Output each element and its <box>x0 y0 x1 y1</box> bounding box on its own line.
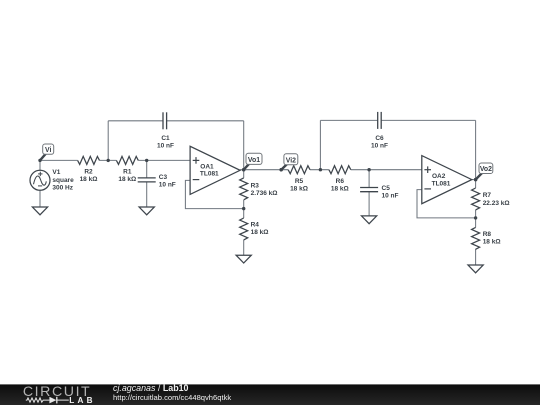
svg-text:Vo1: Vo1 <box>248 157 260 164</box>
resistor R8 <box>472 227 480 249</box>
svg-text:LAB: LAB <box>69 396 95 405</box>
capacitor C5 <box>360 188 378 192</box>
svg-text:square: square <box>52 177 74 184</box>
capacitor C3 <box>138 178 156 182</box>
R2 labels <box>80 169 98 184</box>
node junction R3/R4/feedback <box>242 207 245 210</box>
svg-text:R3: R3 <box>251 183 260 190</box>
node junction R1/C3 <box>145 159 148 162</box>
wire: OA1 output net to OA2 input <box>240 169 288 171</box>
op-amp OA2 <box>422 156 472 204</box>
wire R7 top lead <box>475 180 477 188</box>
svg-text:R2: R2 <box>84 169 93 176</box>
wire C5 bottom lead to ground <box>368 192 370 216</box>
wire feedback left vertical (stage2) <box>319 120 321 169</box>
wire: OA1 inverting feedback loop <box>185 180 243 208</box>
wire C3 bottom lead to ground <box>146 182 148 207</box>
wire OA2 output stub <box>472 179 476 181</box>
svg-text:C3: C3 <box>159 174 168 181</box>
resistor R7 <box>472 188 480 210</box>
svg-text:18 kΩ: 18 kΩ <box>483 238 501 245</box>
wire: stage1 input net <box>40 159 78 161</box>
svg-text:cj.agcanas / Lab10: cj.agcanas / Lab10 <box>113 383 189 393</box>
svg-text:R1: R1 <box>123 169 132 176</box>
ground (under C5) <box>362 216 377 224</box>
svg-text:18 kΩ: 18 kΩ <box>118 176 136 183</box>
wire feedback right vertical (stage1) <box>243 121 245 170</box>
C1 labels <box>157 135 174 150</box>
svg-text:22.23 kΩ: 22.23 kΩ <box>483 200 510 207</box>
R8 labels <box>483 231 501 246</box>
wire feedback left vertical (stage1) <box>107 121 109 161</box>
node flag Vo1 <box>242 153 262 171</box>
svg-text:http://circuitlab.com/cc448qvh: http://circuitlab.com/cc448qvh6qtkk <box>113 393 231 402</box>
svg-text:2.736 kΩ: 2.736 kΩ <box>251 190 278 197</box>
svg-text:C5: C5 <box>382 185 391 192</box>
svg-text:OA2: OA2 <box>432 173 446 180</box>
wire: stage2 top feedback rail <box>320 119 377 121</box>
voltage source V1 <box>30 170 50 190</box>
ground (under R4) <box>236 255 251 263</box>
resistor R1 <box>116 156 138 164</box>
footer credit text <box>113 383 231 402</box>
ground (under R8) <box>468 265 483 273</box>
wire C5 top lead <box>368 170 370 188</box>
resistor R4 <box>240 218 248 240</box>
svg-text:Vo2: Vo2 <box>480 166 492 173</box>
OA1 labels <box>200 164 219 178</box>
CircuitLab logo wordmark <box>23 384 96 405</box>
logo resistor-diode squiggle <box>26 397 69 404</box>
node junction R6/C5 <box>367 168 370 171</box>
wire V1 bottom lead to ground <box>39 190 41 207</box>
ground (under V1) <box>32 207 47 215</box>
V1 value label <box>52 169 74 191</box>
wire R3 top lead <box>243 170 245 178</box>
resistor R3 <box>240 178 248 200</box>
resistor R5 <box>288 166 310 174</box>
node flag Vi <box>38 144 53 162</box>
resistor R6 <box>329 166 351 174</box>
svg-text:R7: R7 <box>483 192 492 199</box>
node OA2 output / Vo2 <box>474 178 477 181</box>
svg-text:10 nF: 10 nF <box>159 182 176 189</box>
wire: OA2 inverting feedback loop <box>417 190 476 218</box>
wire R8 bottom lead to ground <box>475 249 477 265</box>
R5 labels <box>290 178 308 193</box>
capacitor C1 <box>163 112 167 129</box>
svg-text:R4: R4 <box>251 221 260 228</box>
R1 labels <box>118 169 136 184</box>
svg-text:10 nF: 10 nF <box>157 143 174 150</box>
wire feedback right vertical (stage2) <box>475 120 477 179</box>
C3 labels <box>159 174 176 189</box>
svg-text:R8: R8 <box>483 231 492 238</box>
wire R3-R4 junction link <box>243 200 245 218</box>
svg-text:Vi2: Vi2 <box>286 157 296 164</box>
svg-text:R5: R5 <box>295 178 304 185</box>
wire V1 top lead <box>39 160 41 170</box>
capacitor C6 <box>378 112 382 129</box>
svg-text:Vi: Vi <box>45 147 51 154</box>
node Vi2 tap <box>280 168 283 171</box>
svg-text:10 nF: 10 nF <box>382 193 399 200</box>
svg-text:300 Hz: 300 Hz <box>52 185 73 192</box>
node junction R5/R6/C6-rail <box>319 168 322 171</box>
op-amp OA1 <box>190 146 240 194</box>
svg-text:18 kΩ: 18 kΩ <box>251 229 269 236</box>
wire: stage1 top feedback rail <box>108 120 163 122</box>
svg-text:C6: C6 <box>375 135 384 142</box>
svg-text:18 kΩ: 18 kΩ <box>290 186 308 193</box>
svg-text:V1: V1 <box>52 169 60 176</box>
svg-text:TL081: TL081 <box>200 170 219 177</box>
OA2 labels <box>432 173 451 187</box>
wire R4 bottom lead to ground <box>243 240 245 255</box>
svg-text:10 nF: 10 nF <box>371 143 388 150</box>
C5 labels <box>382 185 399 200</box>
node flag Vo2 <box>474 163 493 181</box>
svg-text:18 kΩ: 18 kΩ <box>80 176 98 183</box>
footer bar <box>0 384 540 405</box>
wire C3 top lead <box>146 160 148 178</box>
R3 labels <box>251 183 278 198</box>
R4 labels <box>251 221 269 236</box>
wire R7-R8 junction link <box>475 210 477 228</box>
ground (under C3) <box>139 207 154 215</box>
node flag Vi2 <box>280 154 298 172</box>
svg-text:R6: R6 <box>336 178 345 185</box>
svg-text:TL081: TL081 <box>432 180 451 187</box>
node junction R2/R1/C1-rail <box>107 159 110 162</box>
R7 labels <box>483 192 510 207</box>
C6 labels <box>371 135 388 150</box>
svg-text:18 kΩ: 18 kΩ <box>331 186 349 193</box>
svg-text:C1: C1 <box>161 135 170 142</box>
R6 labels <box>331 178 349 193</box>
node OA1 output / Vo1 <box>242 168 245 171</box>
node junction R7/R8/feedback <box>474 216 477 219</box>
resistor R2 <box>78 156 100 164</box>
